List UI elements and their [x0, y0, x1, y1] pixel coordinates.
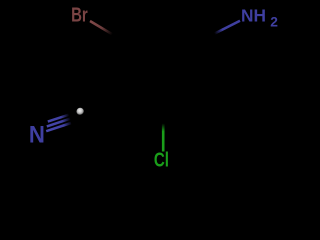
svg-text:Cl: Cl [154, 148, 169, 171]
svg-text:N: N [29, 121, 45, 148]
nitrile triple bond (three parallel lines, blue fading to black) [46, 114, 71, 131]
bond Br-ring (maroon fading to black) [90, 21, 121, 40]
atom label NH2 [241, 6, 278, 30]
atom label Br [71, 3, 88, 26]
atom label N (nitrile) [29, 121, 45, 148]
svg-text:NH: NH [241, 6, 266, 26]
benzene ring (black bonds, invisible on black background) [136, 47, 195, 115]
bond Cl-ring (green fading to black) [162, 116, 165, 152]
nitrile carbon highlight dot [77, 108, 84, 115]
svg-text:Br: Br [71, 3, 88, 26]
atom label Cl [154, 148, 169, 171]
bond NH2-ring (blue fading to black) [215, 21, 241, 34]
svg-text:2: 2 [270, 15, 278, 30]
